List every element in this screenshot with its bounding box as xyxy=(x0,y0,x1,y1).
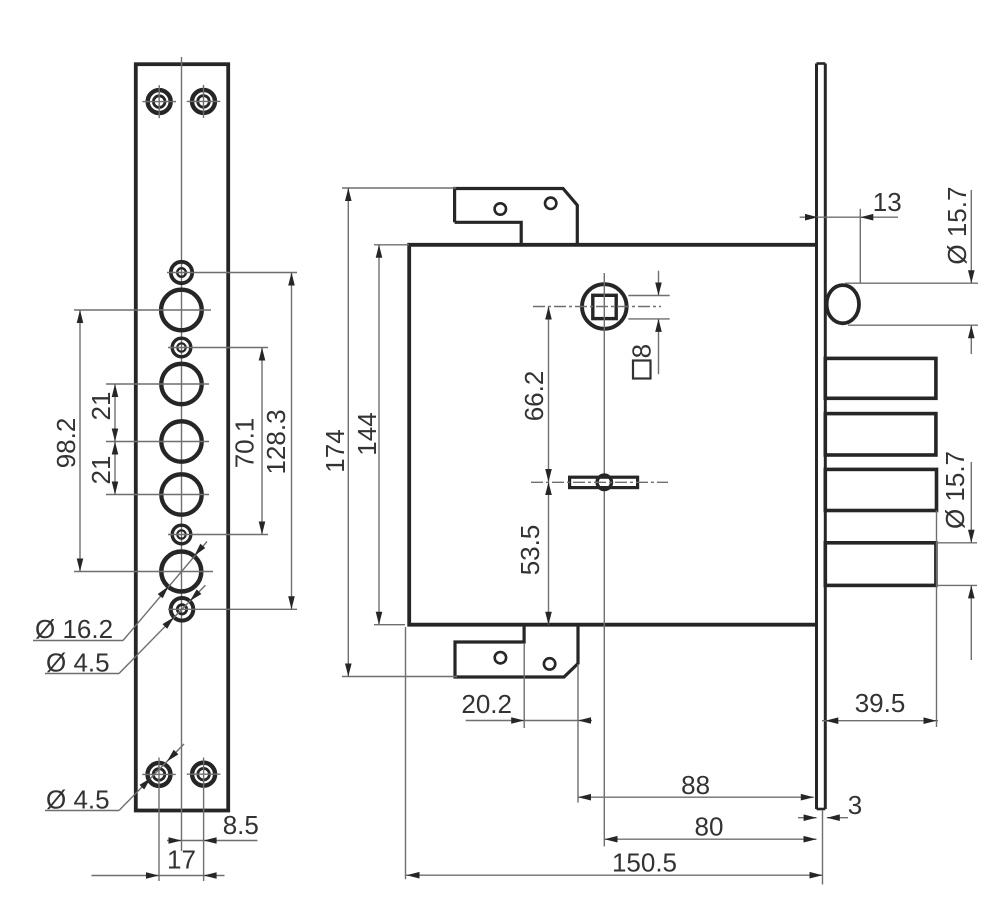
dim 150.5 ext left xyxy=(405,627,407,879)
dim 144 line xyxy=(378,245,380,625)
large hole B centerline xyxy=(74,309,211,311)
hole ring C centerline xyxy=(168,347,268,349)
bottom screw hole 2 ring xyxy=(192,763,215,786)
hole E xyxy=(161,421,201,461)
faceplate outline (front view) xyxy=(136,64,228,810)
dim 80 line xyxy=(605,838,817,840)
dim 3 lines xyxy=(798,817,817,819)
hole F centerline xyxy=(106,494,209,496)
bottom tab hole 2 xyxy=(544,658,555,669)
dim 174 line xyxy=(347,188,349,677)
bottom screw ext line right xyxy=(203,758,205,882)
svg-text:88: 88 xyxy=(681,770,710,800)
hole ring G xyxy=(172,525,191,544)
dim 20.2 ext right / 88 ext xyxy=(577,664,579,803)
lock body outline xyxy=(409,245,816,625)
bottom tab hole 1 xyxy=(495,652,506,663)
bottom screw hole 1 ring xyxy=(148,763,171,786)
spindle horizontal centerline xyxy=(531,481,668,483)
dim 39.5 ext xyxy=(936,511,938,728)
follower vertical centerline xyxy=(603,273,605,846)
bottom screw hole 1 crosshair h xyxy=(142,773,176,775)
bolt stub 1 xyxy=(825,358,936,398)
dim 39.5 line xyxy=(822,720,938,722)
svg-text:Ø 15.7: Ø 15.7 xyxy=(940,451,970,529)
label Ø4.5 bottom leader xyxy=(45,810,119,812)
dim 70.1 line xyxy=(261,348,263,535)
top mounting tab xyxy=(455,189,578,245)
hole ring I (Ø4.5) xyxy=(171,598,194,621)
label Ø16.2 leader xyxy=(33,640,123,642)
dim 53.5 line xyxy=(548,482,550,625)
bolt stub 4 (deadbolt) xyxy=(825,543,936,586)
dim 144 ext bottom xyxy=(374,624,405,626)
dim 150.5 ext right xyxy=(822,810,824,885)
svg-text:Ø 16.2: Ø 16.2 xyxy=(35,614,113,644)
dim 17 line xyxy=(92,875,225,877)
bottom screw hole 2 crosshair h xyxy=(187,773,221,775)
dim 21 upper line xyxy=(114,384,116,495)
hole E centerline xyxy=(106,441,209,443)
svg-text:17: 17 xyxy=(167,845,196,875)
bolt stub 3 xyxy=(825,469,936,510)
dim 20.2 line xyxy=(466,720,592,722)
faceplate vertical centerline xyxy=(181,57,183,851)
hole ring A centerline xyxy=(167,272,297,274)
spindle bar xyxy=(570,477,638,487)
dim square-8 ext lines xyxy=(628,295,669,297)
svg-text:8: 8 xyxy=(627,344,657,358)
dim 144 ext top xyxy=(374,244,409,246)
top screw hole 2 ring xyxy=(192,90,215,113)
dim 13 ext xyxy=(859,209,861,283)
svg-text:8.5: 8.5 xyxy=(223,810,259,840)
dim square-8 line xyxy=(658,271,660,296)
svg-text:53.5: 53.5 xyxy=(515,525,545,576)
svg-text:150.5: 150.5 xyxy=(612,848,677,878)
svg-text:Ø 15.7: Ø 15.7 xyxy=(942,187,972,265)
svg-text:80: 80 xyxy=(695,812,724,842)
dim Ø15.7 bolt line xyxy=(970,462,972,543)
dim 8.5 line xyxy=(167,840,258,842)
dim 150.5 line xyxy=(406,874,823,876)
svg-text:70.1: 70.1 xyxy=(230,418,260,469)
hole D xyxy=(161,364,201,404)
svg-text:39.5: 39.5 xyxy=(855,688,906,718)
svg-text:174: 174 xyxy=(320,429,350,472)
dim 174 ext top xyxy=(342,187,456,189)
svg-text:98.2: 98.2 xyxy=(51,418,81,469)
svg-text:3: 3 xyxy=(848,790,862,820)
cylinder boss (side view) xyxy=(827,285,859,323)
hole ring C xyxy=(172,338,191,357)
large hole H (Ø16.2) xyxy=(161,552,201,592)
hole ring G centerline xyxy=(168,534,268,536)
svg-text:128.3: 128.3 xyxy=(261,409,291,474)
forend plate (side view) xyxy=(815,64,818,810)
dim 13 line xyxy=(800,216,898,218)
hole ring I centerline xyxy=(168,608,297,610)
key follower circle xyxy=(582,284,627,329)
dim square-8 symbol xyxy=(633,361,651,379)
svg-text:66.2: 66.2 xyxy=(519,371,549,422)
svg-text:21: 21 xyxy=(86,456,116,485)
svg-text:21: 21 xyxy=(86,392,116,421)
hole F xyxy=(161,474,201,514)
dim Ø15.7 top ext lines xyxy=(845,282,978,284)
top tab hole 1 xyxy=(495,203,506,214)
top screw hole 2 crosshair xyxy=(187,100,221,102)
hole D centerline xyxy=(106,383,209,385)
dim Ø15.7 bolt ext lines xyxy=(938,542,977,544)
top screw hole 1 ring xyxy=(148,90,171,113)
large hole B xyxy=(161,290,202,331)
dim 128.3 line xyxy=(291,273,293,610)
large hole H centerline xyxy=(74,571,213,573)
spindle hub circle xyxy=(597,475,611,489)
dim 88 line xyxy=(578,796,814,798)
bottom mounting tab xyxy=(455,625,578,677)
bottom screw ext line left xyxy=(158,758,160,882)
dim Ø15.7 top line xyxy=(970,190,972,283)
bolt stub 2 xyxy=(825,414,936,455)
top tab hole 2 xyxy=(545,198,556,209)
label Ø4.5 mid leader xyxy=(45,673,119,675)
svg-text:13: 13 xyxy=(873,187,902,217)
svg-text:144: 144 xyxy=(352,412,382,455)
dim 174 ext bottom xyxy=(342,676,457,678)
dim 98.2 line xyxy=(79,310,81,572)
follower square hole xyxy=(593,295,616,318)
svg-text:20.2: 20.2 xyxy=(461,689,512,719)
dim 66.2 line xyxy=(548,307,550,483)
dim 20.2 ext left xyxy=(523,643,525,728)
top screw hole 1 crosshair xyxy=(142,101,176,103)
hole ring A (top small ring) xyxy=(171,262,192,283)
follower horizontal centerline xyxy=(533,306,661,308)
